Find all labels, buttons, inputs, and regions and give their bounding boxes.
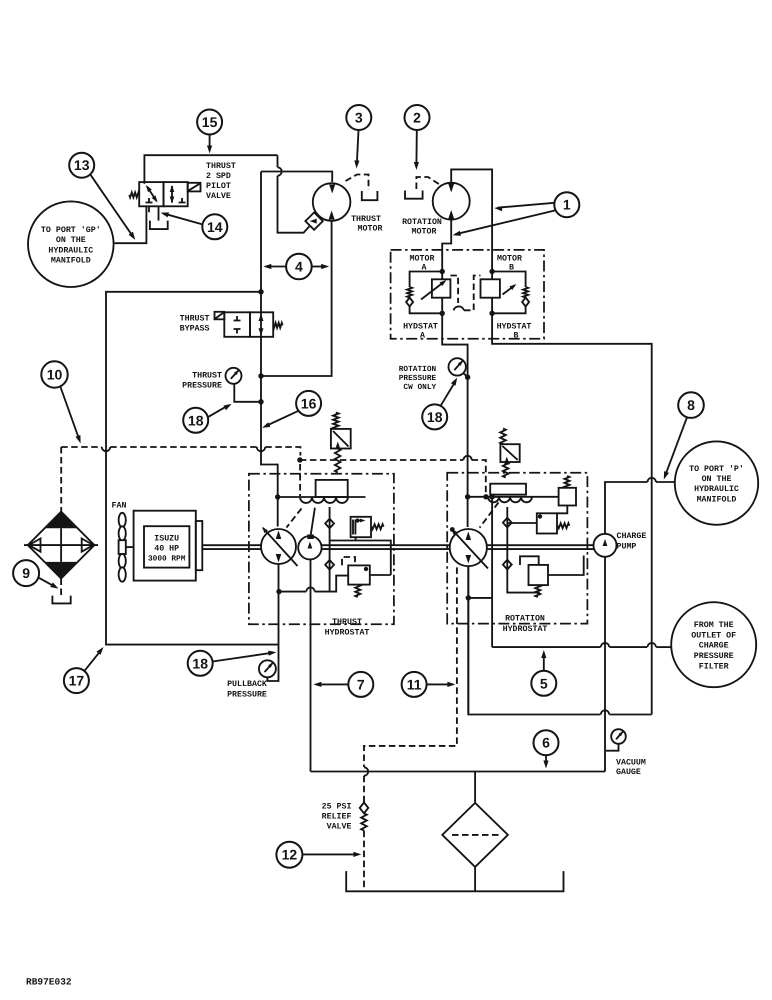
- svg-text:10: 10: [47, 367, 63, 383]
- svg-text:A: A: [420, 332, 425, 341]
- svg-text:PILOT: PILOT: [206, 182, 231, 191]
- balloon 17 (enclosure): [64, 668, 89, 693]
- svg-text:ISUZU: ISUZU: [154, 535, 179, 544]
- svg-text:11: 11: [407, 676, 422, 692]
- svg-text:ROTATION: ROTATION: [505, 615, 545, 624]
- wire: charge pump outlet to port P: [605, 482, 648, 534]
- balloon 3 (thrust motor): [346, 105, 371, 130]
- hydstat B relief loop: [492, 272, 525, 288]
- svg-text:HYDROSTAT: HYDROSTAT: [325, 629, 370, 638]
- svg-text:THRUST: THRUST: [192, 372, 222, 381]
- svg-text:14: 14: [207, 219, 223, 235]
- svg-text:4: 4: [295, 259, 303, 275]
- thrust charge pump: [298, 536, 321, 559]
- thrust control block: [316, 480, 348, 497]
- rotation orifice line: [507, 507, 540, 593]
- wire: bottom suction loop: [311, 771, 606, 773]
- svg-text:3: 3: [355, 110, 363, 126]
- svg-text:PUMP: PUMP: [617, 543, 637, 552]
- svg-text:PRESSURE: PRESSURE: [182, 382, 222, 391]
- balloon 9 (strainer): [13, 560, 39, 586]
- orifice line with two restrictor diamonds: [329, 507, 331, 592]
- dashed crossover between hydstat A and B: [450, 276, 458, 304]
- svg-text:TO PORT 'GP': TO PORT 'GP': [41, 225, 101, 235]
- svg-text:ROTATION: ROTATION: [399, 365, 437, 374]
- svg-text:GAUGE: GAUGE: [616, 768, 641, 777]
- svg-text:BYPASS: BYPASS: [180, 325, 210, 334]
- balloon 18 (thrust gauge): [183, 408, 208, 433]
- svg-text:PRESSURE: PRESSURE: [227, 691, 267, 700]
- svg-text:CW ONLY: CW ONLY: [403, 383, 436, 392]
- hydstat B relief valve square: [491, 272, 493, 314]
- hydstat A relief valve square: [441, 272, 443, 314]
- svg-text:THRUST: THRUST: [351, 215, 381, 224]
- svg-text:THRUST: THRUST: [206, 162, 236, 171]
- motor A/B hydstat dash-dot box: [391, 250, 544, 339]
- rotation pump bottom line: [467, 566, 469, 714]
- balloon 14 (pilot valve drain): [202, 214, 227, 239]
- balloon 18 (pullback gauge): [188, 651, 213, 676]
- rotation pressure gauge: [449, 358, 466, 375]
- svg-text:MANIFOLD: MANIFOLD: [697, 495, 737, 504]
- svg-text:THRUST: THRUST: [180, 315, 210, 324]
- balloon 5 (charge line): [531, 671, 556, 696]
- circle: TO PORT P ON THE HYDRAULIC MANIFOLD: [675, 441, 758, 524]
- svg-text:RELIEF: RELIEF: [322, 813, 352, 822]
- svg-text:HYDSTAT: HYDSTAT: [403, 323, 438, 332]
- svg-text:FROM THE: FROM THE: [694, 621, 734, 630]
- balloon 12 (25 psi relief): [276, 842, 302, 868]
- rotation high pressure relief valve: [500, 429, 506, 445]
- svg-text:40 HP: 40 HP: [154, 545, 179, 554]
- rotation hydrostat dash-dot box: [447, 473, 587, 624]
- rotation pump (variable displacement): [450, 529, 487, 566]
- svg-text:2: 2: [413, 110, 421, 126]
- svg-text:CHARGE: CHARGE: [617, 532, 647, 541]
- balloon 18 (rotation gauge): [422, 404, 447, 429]
- svg-text:13: 13: [74, 157, 90, 173]
- wire: rotation motor bottom to hydstat A: [442, 220, 451, 272]
- svg-text:HYDSTAT: HYDSTAT: [497, 323, 532, 332]
- charge pump: [594, 534, 617, 557]
- svg-text:25 PSI: 25 PSI: [322, 803, 352, 812]
- svg-text:RB97E032: RB97E032: [26, 977, 72, 988]
- wire: charge pump suction down: [604, 557, 606, 772]
- svg-text:THRUST: THRUST: [332, 618, 362, 627]
- balloon 2 (rotation motor): [405, 105, 430, 130]
- suction strainer diamond (balloon 9): [60, 447, 62, 512]
- thrust bypass valve: [215, 312, 274, 337]
- svg-text:OUTLET OF: OUTLET OF: [691, 631, 736, 640]
- svg-text:18: 18: [188, 412, 204, 428]
- pilot valve drain line + tank: [158, 206, 160, 220]
- wire: hydstat A down to rotation hydrostat: [442, 313, 467, 527]
- svg-text:16: 16: [301, 395, 317, 411]
- svg-text:6: 6: [542, 735, 550, 751]
- svg-text:9: 9: [22, 565, 30, 581]
- balloon 16 (line B): [296, 391, 321, 416]
- svg-text:MANIFOLD: MANIFOLD: [51, 257, 91, 266]
- thrust servo relief valve B: [351, 517, 371, 537]
- svg-text:HYDRAULIC: HYDRAULIC: [48, 246, 93, 255]
- vacuum gauge: [611, 729, 626, 744]
- svg-text:MOTOR: MOTOR: [497, 255, 522, 264]
- balloon 1 (motors): [554, 192, 579, 217]
- dashed reservoir line (balloon 10): [61, 446, 102, 448]
- thrust pressure gauge: [234, 384, 261, 402]
- svg-text:VALVE: VALVE: [206, 192, 231, 201]
- spring on pilot valve left: [129, 192, 139, 197]
- swashplate control dashed link: [287, 509, 302, 528]
- thrust pump bottom manifold: [267, 564, 278, 681]
- charge return line down: [491, 497, 493, 647]
- svg-text:8: 8: [687, 397, 695, 413]
- svg-text:3000 RPM: 3000 RPM: [148, 555, 186, 564]
- svg-text:B: B: [514, 332, 519, 341]
- balloon 13 (GP port line): [69, 153, 94, 178]
- svg-text:VACUUM: VACUUM: [616, 759, 646, 768]
- svg-text:MOTOR: MOTOR: [358, 225, 383, 234]
- svg-text:PRESSURE: PRESSURE: [694, 652, 734, 661]
- hydstat A relief loop: [410, 272, 443, 288]
- svg-text:ON THE: ON THE: [56, 236, 86, 245]
- engine ISUZU: [134, 511, 196, 581]
- balloon 10 (reservoir line): [41, 361, 67, 387]
- charge pressure filter: [474, 772, 476, 803]
- svg-text:PRESSURE: PRESSURE: [399, 374, 437, 383]
- thrust servo relief valve C: [348, 565, 370, 584]
- wire: hydstat B down right side loop: [492, 313, 652, 714]
- wire: thrust motor bottom return: [261, 221, 332, 376]
- thrust 2-spd pilot valve: [139, 182, 200, 212]
- svg-text:TO PORT 'P': TO PORT 'P': [689, 464, 744, 474]
- balloon 4 (crossover): [286, 254, 312, 280]
- rotation servo relief valves: [559, 488, 576, 506]
- drive shaft double line: [202, 545, 261, 549]
- svg-text:FAN: FAN: [112, 502, 127, 511]
- svg-text:ON THE: ON THE: [702, 475, 732, 484]
- balloon 15 (pilot valve supply): [197, 110, 222, 135]
- rotation swashplate dashed link: [480, 502, 499, 527]
- wire: charge filter return: [492, 646, 600, 648]
- wire: pilot valve top supply to thrust motor loop: [144, 155, 277, 184]
- svg-text:HYDROSTAT: HYDROSTAT: [503, 625, 548, 634]
- rotation control block: [490, 484, 526, 495]
- dashed pilot line across (balloon 8 branch): [300, 459, 463, 461]
- svg-text:15: 15: [202, 114, 218, 130]
- svg-text:FILTER: FILTER: [699, 663, 729, 672]
- thrust pump (variable displacement): [261, 529, 296, 564]
- thrust motor M1: [313, 183, 351, 221]
- svg-text:17: 17: [69, 673, 85, 689]
- svg-text:MOTOR: MOTOR: [412, 228, 437, 237]
- thrust hydrostat dash-dot box: [249, 474, 394, 624]
- svg-text:PULLBACK: PULLBACK: [227, 680, 267, 689]
- svg-text:5: 5: [540, 675, 548, 691]
- wire: line B main vertical (balloon 16 line): [260, 172, 262, 313]
- reservoir tank: [346, 871, 563, 891]
- svg-text:HYDRAULIC: HYDRAULIC: [694, 485, 739, 494]
- balloon 11 (case drain line): [402, 672, 427, 697]
- rotation motor disconnect bracket: [405, 191, 423, 199]
- svg-text:1: 1: [563, 197, 571, 213]
- rotation motor M2: [433, 183, 470, 220]
- thrust charge pump case line down: [310, 559, 312, 771]
- svg-text:ROTATION: ROTATION: [402, 218, 442, 227]
- engine enclosure (balloon 17): [106, 292, 279, 645]
- pullback pressure gauge: [259, 660, 276, 677]
- thrust motor disconnect bracket: [362, 191, 378, 200]
- circle: FROM THE OUTLET OF CHARGE PRESSURE FILTER: [671, 602, 756, 687]
- svg-text:18: 18: [427, 409, 443, 425]
- svg-text:12: 12: [282, 847, 298, 863]
- wire: pilot valve bottom port to GP circle: [114, 206, 147, 243]
- balloon 6 (suction line): [534, 730, 559, 755]
- circle: TO PORT GP ON THE HYDRAULIC MANIFOLD: [28, 201, 114, 287]
- wire: rotation motor top loop to hydstat B: [451, 169, 492, 271]
- wire: thrust motor top feed: [261, 172, 332, 183]
- svg-text:MOTOR: MOTOR: [410, 255, 435, 264]
- thrust high pressure relief valve: [333, 413, 339, 429]
- svg-text:2 SPD: 2 SPD: [206, 172, 231, 181]
- balloon 8 (port P line): [678, 392, 704, 418]
- svg-text:18: 18: [192, 655, 208, 671]
- case drain dashed line + 25 psi relief: [364, 567, 457, 767]
- svg-text:VALVE: VALVE: [327, 823, 352, 832]
- balloon 7 (pump case line): [348, 672, 373, 697]
- svg-text:7: 7: [357, 676, 365, 692]
- svg-text:CHARGE: CHARGE: [699, 642, 729, 651]
- rotation low relief valve: [529, 565, 549, 585]
- thrust motor case drain diamond: [305, 212, 322, 229]
